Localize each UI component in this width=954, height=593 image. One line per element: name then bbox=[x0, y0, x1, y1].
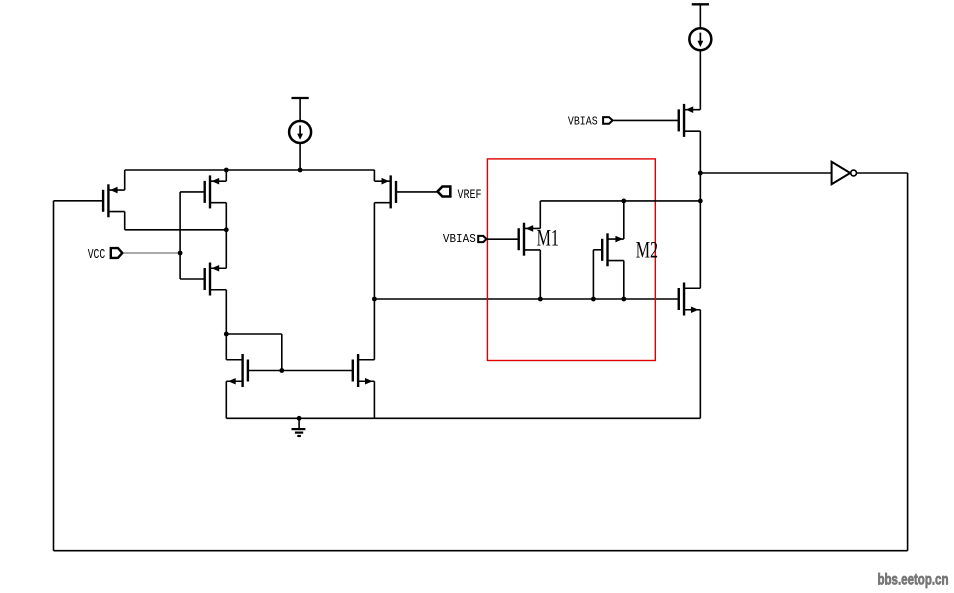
wire bbox=[373, 170, 375, 181]
svg-text:M1: M1 bbox=[537, 226, 559, 252]
wire (feedback right) bbox=[907, 173, 909, 551]
current source I1 bbox=[289, 121, 311, 143]
wire (gate link) bbox=[248, 370, 352, 372]
wire bbox=[699, 310, 701, 419]
wire bbox=[623, 201, 625, 239]
VCC label bbox=[88, 247, 106, 263]
wire bbox=[623, 261, 625, 299]
transistor M2 bbox=[593, 233, 623, 266]
wire (output gate bus) bbox=[374, 298, 678, 300]
power symbol (supply bar top right) bbox=[692, 4, 709, 28]
wire bbox=[225, 334, 227, 360]
wire bbox=[539, 201, 541, 229]
inverter U1 bbox=[832, 162, 857, 184]
M1 label bbox=[537, 226, 559, 252]
wire (feedback left) bbox=[53, 201, 55, 551]
node (inverter tap) bbox=[698, 171, 703, 176]
svg-text:VBIAS: VBIAS bbox=[568, 115, 598, 128]
VBIAS label (lower) bbox=[443, 233, 476, 246]
wire (inverter input) bbox=[700, 172, 831, 174]
VREF label bbox=[458, 187, 482, 202]
node (I1 to top rail) bbox=[298, 168, 303, 173]
svg-text:VCC: VCC bbox=[88, 247, 106, 263]
node (ground tap) bbox=[297, 416, 302, 421]
svg-text:VREF: VREF bbox=[458, 187, 482, 202]
wire bbox=[225, 290, 227, 334]
wire bbox=[125, 169, 375, 171]
port VBIAS (upper) bbox=[603, 117, 613, 124]
current source I2 bbox=[689, 28, 711, 50]
transistor NMOS mirror right bbox=[353, 354, 375, 387]
port VCC bbox=[111, 248, 123, 258]
wire bbox=[124, 170, 126, 190]
node (gate bus tap) bbox=[372, 297, 377, 302]
M2 label bbox=[636, 237, 658, 263]
transistor NMOS mirror left bbox=[226, 354, 248, 387]
power symbol (supply bar above I1) bbox=[292, 98, 309, 121]
wire bbox=[225, 230, 227, 268]
port VBIAS (lower) bbox=[478, 236, 486, 242]
wire bbox=[179, 192, 181, 279]
transistor M1 bbox=[487, 223, 540, 256]
node (M2 drain) bbox=[621, 199, 626, 204]
wire bbox=[299, 143, 301, 170]
node (M2 gate) bbox=[591, 297, 596, 302]
transistor PMOS cascode lower bbox=[180, 263, 226, 296]
node (sources join) bbox=[224, 227, 229, 232]
wire (VCC lead) bbox=[123, 252, 180, 254]
wire bbox=[699, 50, 701, 110]
wire (mid rail) bbox=[373, 203, 375, 360]
wire (inverter output) bbox=[857, 172, 908, 174]
transistor NMOS output bbox=[679, 283, 701, 316]
wire bbox=[373, 381, 375, 418]
wire bbox=[592, 250, 594, 299]
wire bbox=[539, 250, 541, 299]
port VREF bbox=[438, 187, 451, 197]
node (T2 drain on rail) bbox=[224, 168, 229, 173]
node (M2 source) bbox=[621, 297, 626, 302]
watermark bbox=[878, 571, 949, 588]
wire bbox=[225, 381, 227, 418]
wire bbox=[54, 200, 104, 202]
ground bbox=[292, 418, 306, 436]
node VCC bbox=[178, 251, 183, 256]
node (T3 source branch) bbox=[224, 332, 229, 337]
node (M1 source) bbox=[538, 297, 543, 302]
wire bbox=[225, 170, 227, 181]
svg-text:VBIAS: VBIAS bbox=[443, 233, 476, 246]
highlight box (startup circuit) bbox=[487, 159, 655, 361]
transistor PMOS top-left bbox=[103, 184, 125, 217]
node (bus to rail) bbox=[698, 199, 703, 204]
transistor PMOS bias follower bbox=[614, 104, 701, 137]
svg-text:bbs.eetop.cn: bbs.eetop.cn bbox=[878, 571, 949, 588]
wire (M1 drain bus) bbox=[540, 200, 700, 202]
svg-text:M2: M2 bbox=[636, 237, 658, 263]
VBIAS label (upper) bbox=[568, 115, 598, 128]
wire bbox=[125, 212, 227, 230]
wire bbox=[226, 334, 281, 371]
transistor PMOS diode-connected upper bbox=[180, 175, 226, 208]
wire (feedback bottom) bbox=[54, 550, 908, 552]
node (mirror gates) bbox=[279, 368, 284, 373]
wire (right rail) bbox=[699, 131, 701, 288]
wire bbox=[225, 203, 227, 230]
wire (ground bus) bbox=[226, 417, 700, 419]
transistor PMOS VREF driver bbox=[374, 175, 437, 208]
